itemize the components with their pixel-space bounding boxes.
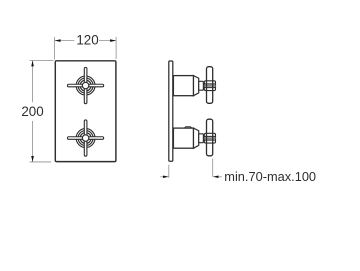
svg-text:120: 120 [76, 33, 98, 48]
svg-text:min.70-max.100: min.70-max.100 [224, 169, 316, 184]
svg-text:200: 200 [21, 104, 43, 119]
